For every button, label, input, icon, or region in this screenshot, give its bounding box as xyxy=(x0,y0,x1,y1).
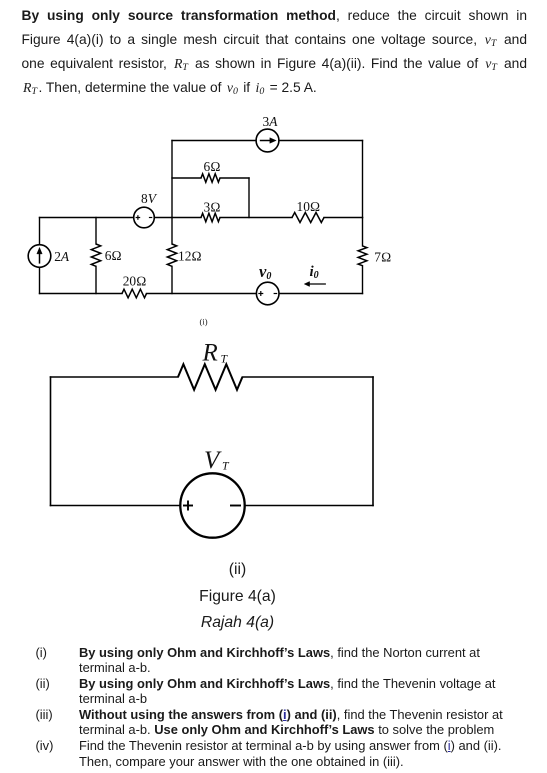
wire: bottom wire right of vo source xyxy=(279,293,363,295)
resistor 6-ohm vertical xyxy=(91,244,100,266)
svg-text:i0: i0 xyxy=(310,264,319,281)
wire: left vertical of top loop xyxy=(171,141,173,218)
svg-text:12Ω: 12Ω xyxy=(178,248,202,263)
8V minus sign xyxy=(149,217,152,219)
wire: 12-ohm vertical branch upper xyxy=(171,218,173,245)
wire: 6-ohm vertical branch lower xyxy=(95,266,97,293)
voltage source 8V circle xyxy=(134,207,155,228)
resistor 3-ohm xyxy=(201,213,220,221)
wire: middle wire 3-ohm to 10-ohm xyxy=(220,217,292,219)
wire: top wire left of 3A source xyxy=(172,140,256,142)
resistor 7-ohm vertical xyxy=(358,246,367,266)
wire: middle wire 10-ohm to right vertical xyxy=(324,217,363,219)
wire: bottom wire right of VT xyxy=(245,505,373,507)
VT minus sign xyxy=(230,505,241,507)
paragraph line 3 xyxy=(22,56,528,71)
list item (iii) xyxy=(36,707,53,722)
svg-text:T: T xyxy=(221,351,229,365)
paragraph line 1 xyxy=(22,8,528,23)
wire: bottom wire left of 20-ohm xyxy=(40,293,123,295)
svg-text:8V: 8V xyxy=(141,191,158,206)
vo plus sign xyxy=(258,291,263,296)
resistor 6-ohm horizontal (top branch) xyxy=(201,174,220,182)
paragraph line 4 xyxy=(22,80,528,95)
svg-text:10Ω: 10Ω xyxy=(297,199,321,214)
wire: middle wire from left vertical to 8V source xyxy=(40,217,134,219)
wire: vertical drop from 6-ohm branch to middle wire xyxy=(248,178,250,218)
paragraph line 2 xyxy=(22,32,528,47)
wire: 12-ohm vertical branch lower xyxy=(171,266,173,293)
wire: left vertical below 2A source xyxy=(39,267,41,293)
svg-text:3Ω: 3Ω xyxy=(204,199,221,214)
VT plus sign xyxy=(183,501,193,511)
wire: top wire right of RT xyxy=(242,376,373,378)
wire: 6-ohm vertical branch upper xyxy=(95,218,97,245)
circuit (ii): top wire left of RT xyxy=(51,377,374,506)
svg-text:(i): (i) xyxy=(200,317,208,327)
svg-text:v0: v0 xyxy=(259,262,271,282)
resistor 10-ohm xyxy=(292,213,324,223)
svg-text:7Ω: 7Ω xyxy=(374,250,391,265)
wire: 6-ohm branch right segment xyxy=(220,177,249,179)
vo minus sign xyxy=(274,293,278,295)
svg-text:6Ω: 6Ω xyxy=(105,248,122,263)
current source 3A arrow xyxy=(260,138,276,144)
resistor RT xyxy=(178,364,242,390)
svg-text:R: R xyxy=(202,340,218,367)
svg-text:V: V xyxy=(204,447,222,474)
wire: bottom wire 20-ohm to vo source xyxy=(147,293,257,295)
wire: right vertical of mesh xyxy=(372,377,374,506)
wire: bottom wire left of VT xyxy=(51,505,181,507)
wire: right vertical from top wire to middle wire xyxy=(362,141,364,218)
caption Figure 4(a) xyxy=(0,589,475,605)
wire: middle wire 8V to 3-ohm xyxy=(154,217,201,219)
svg-text:6Ω: 6Ω xyxy=(204,159,221,174)
current source 2A arrow xyxy=(37,247,42,263)
svg-text:3A: 3A xyxy=(263,114,279,129)
list item (iv) xyxy=(36,738,54,753)
list item (ii) xyxy=(36,676,50,691)
svg-text:20Ω: 20Ω xyxy=(123,274,147,289)
list item (i) xyxy=(36,645,47,660)
wire: right vertical below 7-ohm xyxy=(362,266,364,294)
voltage source VT circle xyxy=(180,473,244,537)
wire: 6-ohm branch left segment xyxy=(172,177,201,179)
voltage source vo circle xyxy=(256,282,279,305)
current source 2A circle xyxy=(28,245,51,268)
resistor 12-ohm vertical xyxy=(167,244,176,266)
current source 3A circle xyxy=(256,129,279,152)
8V plus sign xyxy=(136,215,141,220)
io reference arrow xyxy=(304,282,326,287)
svg-text:T: T xyxy=(222,458,230,472)
wire: top wire right of 3A source xyxy=(279,140,363,142)
resistor 20-ohm xyxy=(122,289,147,298)
wire: left vertical above 2A source xyxy=(39,218,41,245)
caption (ii) xyxy=(0,562,475,578)
wire: right vertical above 7-ohm xyxy=(362,218,364,246)
wire: left vertical of mesh xyxy=(50,377,52,506)
svg-text:2A: 2A xyxy=(54,249,70,264)
caption Rajah 4(a) xyxy=(0,615,475,631)
